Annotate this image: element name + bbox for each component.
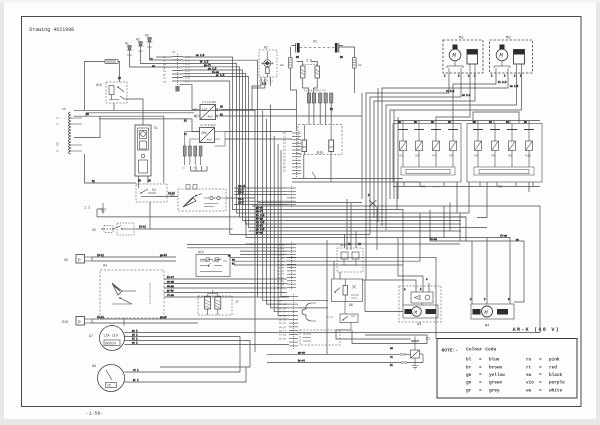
svg-text:A3: A3 [417, 323, 421, 327]
wire X3 upper rows [234, 188, 287, 205]
relay K3 [398, 124, 408, 167]
svg-text:br 1: br 1 [133, 379, 139, 382]
fuse A2 right [353, 58, 362, 69]
wire bank2 loop [473, 112, 519, 123]
svg-text:ge-sw: ge-sw [298, 352, 306, 355]
svg-text:rs: rs [526, 358, 532, 363]
svg-text:sw 2.5: sw 2.5 [462, 94, 471, 97]
svg-text:bl: bl [163, 69, 167, 73]
svg-text:20X: 20X [201, 131, 207, 135]
wire X1 row8 to mesh [183, 81, 370, 235]
solenoid valve on A3 [411, 292, 433, 305]
wire F6 west drop [84, 62, 105, 111]
wire S3 to mesh [136, 228, 233, 230]
fuse box below A6 [326, 302, 358, 331]
gauge A9 [92, 365, 130, 392]
svg-text:ws-ge: ws-ge [279, 315, 287, 318]
connector pins X6 [182, 132, 202, 170]
svg-text:gr-gn: gr-gn [279, 307, 287, 310]
wire holder bottoms to pins [303, 78, 318, 93]
svg-text:sw: sw [526, 373, 532, 378]
svg-text:M2: M2 [506, 37, 511, 41]
svg-text:br-rt: br-rt [298, 360, 306, 363]
svg-text:-1-58-: -1-58- [86, 411, 103, 417]
svg-text:ws 2.5: ws 2.5 [510, 85, 519, 88]
wire X1 row9 to converter [180, 85, 195, 110]
connector X3 column [277, 242, 296, 290]
svg-text:Colour Code: Colour Code [466, 347, 497, 353]
lever switch A5 [170, 185, 226, 212]
switch S3 [92, 223, 136, 235]
wire strip bus pair [86, 113, 194, 116]
svg-text:S9: S9 [64, 259, 68, 263]
wire M4 pins [472, 238, 487, 305]
wire X1 row5 to mesh [183, 70, 461, 221]
svg-text:purple: purple [549, 381, 565, 386]
wire pins X7 down [309, 103, 331, 125]
wire horn H1 drop [130, 55, 173, 67]
svg-text:30: 30 [303, 146, 307, 149]
svg-text:brown: brown [489, 365, 503, 370]
wire A3 solenoid feeds [362, 238, 429, 293]
svg-text:48V: 48V [208, 116, 213, 119]
horn H2 [136, 38, 144, 52]
relay A10 [96, 82, 127, 103]
ground 1.2 [84, 203, 107, 213]
svg-text:H2: H2 [136, 38, 140, 42]
relay K6 [490, 124, 500, 167]
wire motor M1 drops [366, 73, 475, 280]
relay K7 [431, 124, 441, 167]
pushbutton S10 [62, 317, 92, 326]
svg-text:AM-K (48 V): AM-K (48 V) [513, 327, 560, 333]
svg-text:bl: bl [466, 358, 472, 363]
svg-text:grey: grey [489, 388, 500, 393]
wire A2b switch [312, 172, 317, 179]
valve unit J7 [198, 290, 239, 315]
svg-text:Drawing 4621990: Drawing 4621990 [29, 27, 74, 33]
note colour code box [437, 339, 577, 399]
control unit A4 [100, 265, 164, 319]
relay K8 [507, 124, 517, 167]
brush pack B2 [514, 50, 525, 74]
wire A4 to X3 rows [164, 279, 289, 297]
wire X3 feed rows [187, 245, 287, 255]
svg-text:S1: S1 [154, 126, 158, 130]
svg-text:ws-gn: ws-gn [167, 281, 175, 284]
svg-text:gr 1.5: gr 1.5 [216, 74, 225, 77]
brush pack B1 [467, 50, 478, 74]
svg-text:2.5: 2.5 [262, 83, 267, 86]
svg-text:vio: vio [526, 381, 534, 386]
svg-text:ge: ge [466, 373, 472, 378]
svg-text:K7: K7 [433, 155, 437, 158]
svg-text:sw-ge: sw-ge [167, 285, 175, 288]
svg-text:ws-gr: ws-gr [279, 337, 287, 340]
svg-text:ge-gr: ge-gr [279, 326, 287, 329]
wire X1 row3 to mesh [183, 64, 469, 242]
ground at K1 [412, 363, 419, 370]
svg-text:=: = [479, 388, 482, 393]
wire mesh verticals lower [347, 199, 377, 250]
wire long bus 216.9 [97, 209, 466, 217]
key switch S1 [135, 125, 158, 176]
wire battery right drop [339, 47, 355, 93]
svg-text:=: = [539, 358, 542, 363]
wire S4 to A5 [155, 196, 178, 198]
svg-text:K5: K5 [416, 155, 420, 158]
svg-text:=: = [539, 388, 542, 393]
wire S9 pair [92, 257, 176, 261]
wire A9 rows east [130, 367, 246, 382]
svg-text:bl 2.5: bl 2.5 [256, 214, 265, 217]
wire motor M2 drops [382, 73, 522, 230]
svg-text:sw: sw [163, 81, 167, 84]
wire mesh row 206 [252, 206, 540, 333]
wire mesh row 241 [430, 241, 524, 302]
wire A3 motor west [365, 280, 403, 312]
svg-text:=: = [479, 365, 482, 370]
horn H3 [145, 34, 153, 48]
svg-text:=: = [539, 381, 542, 386]
svg-text:ge-bl: ge-bl [160, 254, 168, 257]
svg-text:K6: K6 [492, 155, 496, 158]
svg-text:bl-ws: bl-ws [430, 238, 438, 241]
svg-text:14-2: 14-2 [238, 202, 244, 205]
fuse holder 3.8 [301, 59, 320, 79]
svg-text:(2-2): (2-2) [168, 192, 175, 195]
wire fuse F6 to A10 [118, 62, 120, 83]
svg-text:48V: 48V [207, 139, 212, 142]
svg-text:yellow: yellow [489, 373, 505, 378]
wire horn H2 drop [141, 51, 173, 64]
svg-text:blue: blue [489, 358, 500, 363]
harness stub X8 [300, 330, 340, 345]
svg-text:br-bl: br-bl [279, 322, 287, 325]
svg-text:+L/T(2)48V: +L/T(2)48V [200, 123, 216, 127]
wire strip loop [74, 116, 164, 183]
svg-text:gr-ws: gr-ws [256, 232, 264, 235]
terminal loop strip X5 [56, 108, 82, 154]
svg-text:A2: A2 [280, 64, 284, 67]
wire X1 row6 to mesh [183, 73, 461, 224]
svg-text:red: red [549, 365, 557, 370]
svg-text:LZA LED: LZA LED [104, 335, 118, 339]
svg-text:K1: K1 [426, 338, 430, 342]
svg-text:=: = [479, 373, 482, 378]
relay K4 [473, 124, 483, 167]
bracket X9 [302, 303, 316, 321]
wire bank bottoms [397, 182, 529, 218]
svg-text:NOTE:-: NOTE:- [442, 348, 459, 354]
svg-text:A1: A1 [313, 41, 317, 45]
wire S10 pair [92, 319, 289, 323]
wire strip top bus [74, 110, 255, 198]
svg-text:A7: A7 [89, 335, 93, 339]
svg-text:S4: S4 [152, 188, 156, 192]
svg-text:M: M [452, 52, 456, 59]
motor M1 [447, 45, 463, 74]
wire A14 top [345, 231, 357, 248]
module A12 [196, 250, 230, 277]
svg-text:rt 1: rt 1 [133, 369, 139, 372]
svg-text:30: 30 [329, 146, 333, 149]
wire bottom feed A6 [327, 240, 340, 354]
svg-text:(9-1): (9-1) [97, 254, 104, 257]
svg-text:K3: K3 [400, 155, 404, 158]
svg-text:ws-rt: ws-rt [256, 210, 264, 213]
svg-text:A6: A6 [349, 303, 353, 307]
svg-text:(2-1): (2-1) [139, 226, 146, 229]
wire X1 row1 to mesh [183, 57, 403, 305]
wire key switch down [138, 176, 148, 188]
junction cross N1 [369, 200, 377, 207]
motor M2 [494, 45, 510, 74]
svg-text:A1: A1 [421, 185, 425, 189]
svg-text:BOSCH: BOSCH [106, 343, 116, 347]
svg-text:12-6: 12-6 [238, 192, 244, 195]
svg-text:S3: S3 [92, 228, 96, 232]
svg-text:rt-sw: rt-sw [500, 235, 508, 238]
wire X6 pins down [191, 166, 208, 171]
svg-text:br: br [466, 365, 472, 370]
svg-text:white: white [549, 388, 563, 393]
svg-text:gr-br: gr-br [167, 290, 175, 293]
svg-text:=: = [479, 358, 482, 363]
svg-text:M4: M4 [485, 325, 489, 329]
connector X1 column [163, 51, 190, 92]
svg-text:gn-gr: gn-gr [160, 316, 168, 319]
svg-text:H1: H1 [125, 42, 129, 46]
relay K5 [414, 124, 424, 167]
svg-text:=: = [539, 365, 542, 370]
wire strip to converter [99, 119, 200, 132]
svg-text:M1: M1 [459, 37, 464, 41]
wire S4 down to S3 [149, 202, 151, 229]
svg-text:bl-rt: bl-rt [167, 276, 175, 279]
wiper motor K2 [259, 46, 277, 83]
wire mesh extra rows [246, 203, 460, 245]
svg-text:rt: rt [526, 365, 532, 370]
svg-text:P: P [78, 258, 81, 263]
converter U2 [200, 123, 226, 146]
svg-text:pink: pink [549, 358, 560, 363]
wire mesh row 237.5 [246, 221, 510, 304]
wire bus under banks [393, 182, 540, 187]
wire U2 east [225, 132, 292, 140]
pushbutton S9 [64, 255, 92, 264]
wire A5 output [226, 198, 255, 352]
svg-text:X1: X1 [172, 51, 176, 54]
svg-text:A10: A10 [96, 83, 102, 87]
svg-text:CD: CD [107, 384, 111, 388]
svg-text:green: green [489, 381, 503, 386]
sensor A14 [337, 243, 363, 272]
wire X1 row7 to mesh [183, 77, 487, 228]
svg-text:rt 2.5: rt 2.5 [446, 90, 455, 93]
wire mesh row 231 [249, 230, 462, 232]
wire K2 pins down [252, 77, 271, 110]
svg-text:bl 2.5: bl 2.5 [498, 81, 507, 84]
svg-text:sw 1: sw 1 [132, 334, 138, 337]
svg-text:J7: J7 [235, 300, 239, 304]
svg-text:F1 F1 F2F2 F3: F1 F1 F2F2 F3 [304, 90, 326, 93]
resistor unit A2b [298, 125, 342, 155]
svg-text:black: black [549, 373, 563, 378]
svg-text:=: = [479, 381, 482, 386]
wire K1 row with connector [267, 353, 411, 355]
svg-text:ge 1: ge 1 [132, 330, 138, 333]
wire bundle drops to X4 [263, 110, 289, 300]
svg-text:bl-ws: bl-ws [279, 303, 287, 306]
svg-text:ws 1.5: ws 1.5 [196, 54, 205, 57]
svg-text:K2: K2 [264, 46, 268, 50]
svg-text:(9-2): (9-2) [97, 316, 104, 319]
wire battery left drop [291, 47, 297, 130]
wire mesh verticals top [362, 88, 398, 222]
svg-text:K8: K8 [509, 155, 513, 158]
connector pins X7 [304, 90, 333, 104]
svg-text:A2: A2 [358, 64, 362, 67]
control box A6 [332, 279, 363, 307]
battery feed A1 [292, 41, 344, 53]
svg-text:A2: A2 [498, 185, 502, 189]
svg-text:1.2: 1.2 [84, 207, 90, 211]
wire A12 rows east [230, 257, 436, 339]
wire labels texture [86, 54, 527, 382]
svg-text:P: P [78, 320, 81, 325]
connector X4 column [279, 294, 298, 350]
svg-text:rt-ws: rt-ws [167, 294, 175, 297]
svg-text:A9: A9 [92, 365, 96, 369]
fuse A2 left [280, 58, 292, 69]
svg-text:br: br [163, 59, 167, 63]
svg-text:=: = [539, 373, 542, 378]
svg-text:A14: A14 [340, 243, 346, 247]
wire A2b bottom drop [304, 155, 331, 182]
relay K10 [524, 124, 534, 167]
svg-text:rt-br: rt-br [279, 311, 287, 314]
wire U1 east [222, 110, 363, 117]
wire horn H3 drop [150, 47, 184, 60]
wire holder top links [297, 62, 318, 67]
wire A4 frame left [84, 154, 136, 183]
svg-text:A12: A12 [198, 250, 204, 254]
pump motor A3 [399, 286, 441, 327]
steering motor M4 [471, 304, 514, 329]
svg-text:K10: K10 [526, 155, 532, 158]
svg-text:H3: H3 [145, 34, 149, 38]
motor unit M1 dashed enclosure [443, 37, 483, 73]
wire A4 to A7 [123, 318, 125, 326]
indicator A7 [89, 326, 130, 351]
wire X1 row2 to battery post [183, 60, 258, 296]
converter U1 [194, 100, 222, 120]
wire A10 down [113, 103, 115, 110]
svg-text:S10: S10 [62, 321, 68, 325]
wire A6 west rows [298, 300, 328, 308]
wire X1 row4 to mesh [183, 67, 466, 241]
wire right mesh verticals [420, 203, 450, 262]
wire A2b east rows [292, 179, 420, 183]
relay K1 [411, 337, 431, 363]
svg-text:ge-rt: ge-rt [279, 299, 287, 302]
horn H1 [125, 42, 133, 56]
wire bank top bus [394, 121, 540, 125]
relay K9 [448, 124, 458, 167]
switch S4 [136, 184, 167, 202]
svg-text:3.8: 3.8 [306, 59, 312, 63]
relay bank A2 enclosure [467, 124, 542, 190]
svg-text:ws: ws [526, 388, 532, 393]
connector X2 column [283, 130, 301, 177]
svg-text:K9: K9 [450, 155, 454, 158]
wire X3 upper column [287, 186, 296, 208]
svg-text:gn: gn [466, 381, 472, 386]
relay bank A1 enclosure [393, 124, 461, 190]
svg-text:L/T(2)48V: L/T(2)48V [202, 100, 216, 104]
wire K1 lower row [267, 362, 423, 364]
motor unit M2 dashed enclosure [490, 37, 533, 73]
svg-text:A4: A4 [103, 265, 107, 269]
svg-text:bl-gn: bl-gn [279, 334, 287, 337]
svg-text:X5: X5 [62, 108, 66, 111]
connector break circles K1 feed [400, 353, 407, 363]
fuse F6 [105, 60, 118, 64]
svg-text:M: M [499, 52, 503, 59]
wire A7 rows east [130, 333, 540, 373]
svg-text:ws 1: ws 1 [132, 342, 138, 345]
wire A10 to key switch [124, 99, 143, 125]
svg-text:K4: K4 [475, 155, 479, 158]
wire A6 bottom loops [336, 330, 427, 344]
svg-text:gr: gr [466, 388, 472, 393]
svg-text:bl 1: bl 1 [132, 338, 138, 341]
